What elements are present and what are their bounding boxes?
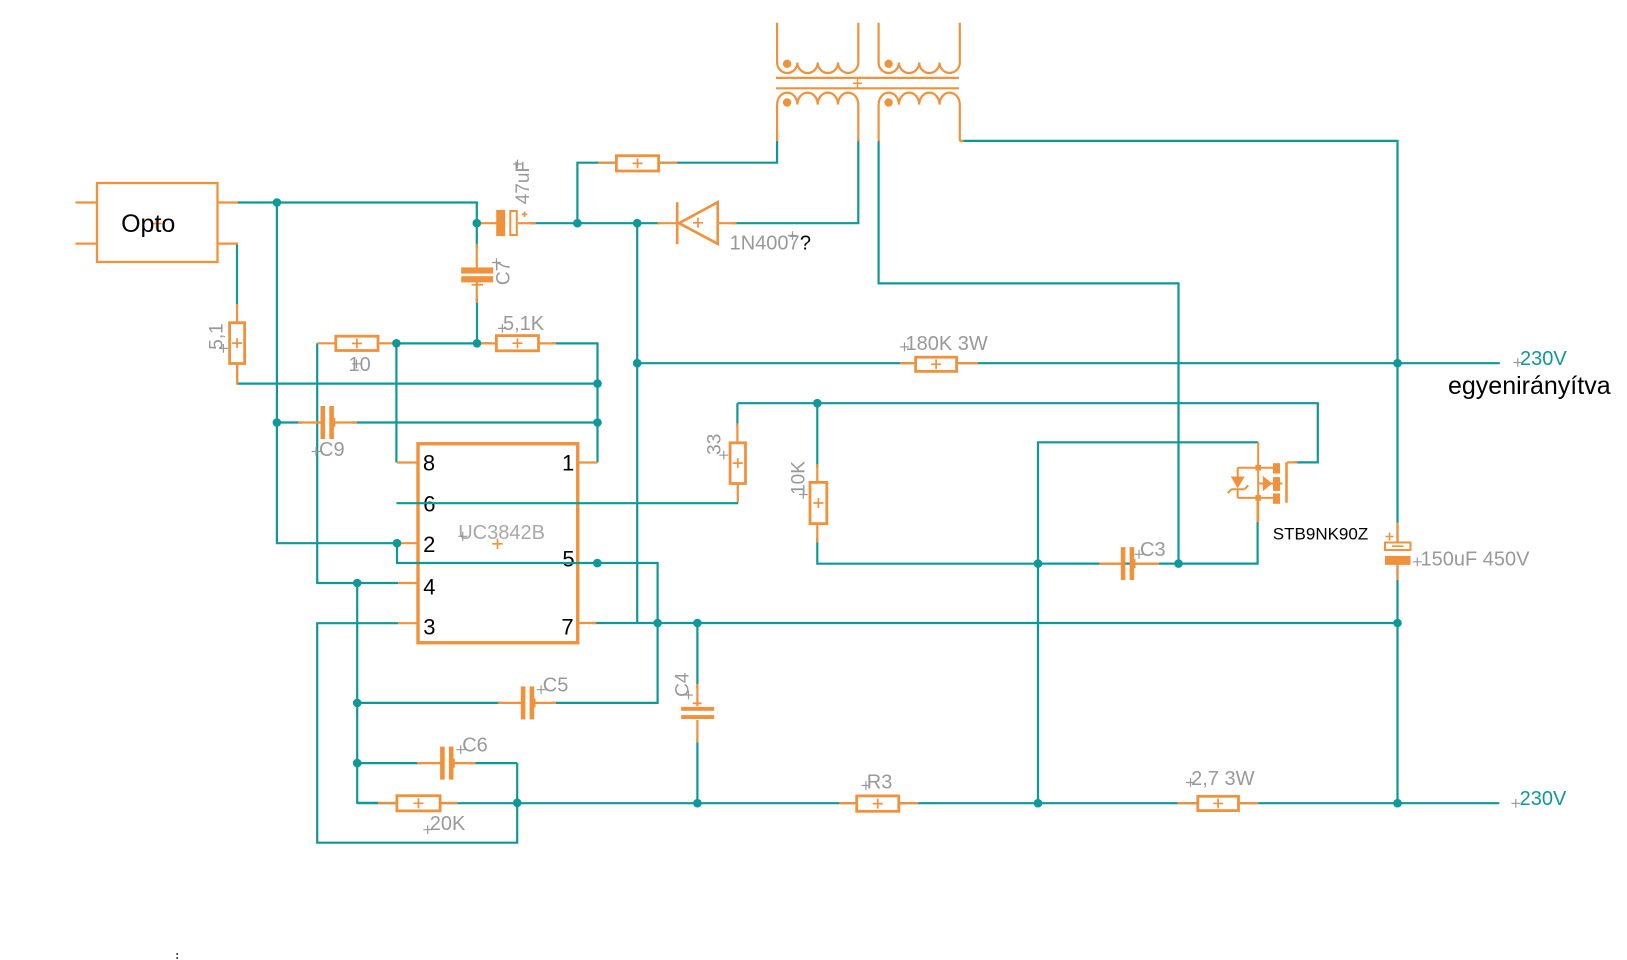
wire: right transformer left lead down and to C3-right vertical	[879, 140, 1179, 564]
wire: diode right to left transformer right lead	[732, 138, 858, 223]
label anchor 47uF	[513, 160, 522, 169]
wire: 47uF right to diode-left node	[530, 222, 660, 224]
label anchor 150uF	[1413, 557, 1422, 566]
wire: 10K bottom lead	[816, 524, 818, 543]
wire: 150uF top lead	[1396, 523, 1398, 546]
capacitor 150uF 450V	[1385, 533, 1411, 565]
svg-text:180K 3W: 180K 3W	[906, 333, 988, 355]
wire: pin4 node down through C5 C6 to 20K	[357, 583, 378, 803]
node: C3 right junction	[1174, 559, 1183, 568]
wire: 150uF bottom lead	[1396, 560, 1398, 580]
wire: 5.1K right to pin1 vertical	[552, 343, 598, 462]
wire: 150uF bottom to pin7-line dot to bottom rail	[1396, 560, 1398, 803]
wire: C6 right lead	[453, 762, 476, 764]
label anchor UC3842B	[458, 532, 467, 541]
node: 180K left junction	[633, 359, 642, 368]
label anchor 20K	[423, 825, 432, 834]
wire: opto right lead 2	[218, 243, 239, 245]
node: pin4 junction	[353, 579, 362, 588]
transformer core lines	[776, 78, 959, 88]
wire: 5.1K left lead	[479, 342, 496, 344]
wire: diode left lead	[657, 222, 676, 224]
label anchor 1N4007	[788, 231, 797, 240]
label anchor 5,1	[219, 344, 228, 353]
svg-text:33: 33	[704, 434, 725, 455]
wire: 180K line from node to 230V	[637, 362, 1500, 364]
svg-text:Opto: Opto	[121, 210, 175, 238]
wire: opto bottom lead down to 5.1 resistor	[236, 244, 238, 308]
wire: C4 top lead	[696, 684, 698, 707]
node: pin5 junction	[593, 559, 602, 568]
wire: C3 right lead	[1134, 562, 1159, 564]
wire: pin3 loop	[317, 623, 517, 843]
diode 1N4007	[677, 202, 718, 244]
transistor Q1 STB9NK90Z	[1228, 442, 1287, 522]
capacitor C3	[1121, 547, 1138, 580]
wire: 180K right lead	[957, 362, 978, 364]
resistor R3 body	[857, 796, 899, 811]
wire: opto left lead 1	[76, 201, 98, 203]
label anchor C3	[1135, 550, 1144, 559]
node: C6 left junction	[353, 759, 362, 768]
svg-text:10: 10	[349, 354, 371, 376]
svg-text:47uF: 47uF	[513, 161, 534, 204]
wire: 5.1-bottom feedback line	[237, 383, 597, 385]
svg-text:230V: 230V	[1520, 348, 1567, 370]
svg-text:C4: C4	[672, 672, 693, 697]
wire: 5.1 bottom lead riser	[236, 364, 238, 384]
wire: C3 left lead	[1099, 562, 1121, 564]
resistor 20K body	[397, 796, 440, 811]
node: C9 left junction	[273, 418, 282, 427]
wire: C9 line left	[277, 421, 302, 423]
wire: 2.7 left lead	[1177, 802, 1197, 804]
wire: pin8 vertical from res10 node	[395, 343, 397, 462]
wire: C7 bottom lead	[476, 282, 478, 303]
node: C7 / 5.1K left	[473, 339, 482, 348]
wire: C5 left lead	[498, 702, 522, 704]
wire: 5.1 bottom lead	[236, 364, 238, 385]
svg-text:1: 1	[562, 451, 574, 476]
label anchor 180K	[900, 343, 909, 352]
wire: pin3 lead	[398, 622, 419, 624]
wire: opto node down-left rail to pin2	[277, 203, 397, 544]
node: diode anode junction	[633, 219, 642, 228]
wire: C4 bottom lead	[696, 720, 698, 743]
capacitor C7	[461, 267, 493, 284]
node: C4 top junction	[693, 619, 702, 628]
node: 47uF right	[573, 219, 582, 228]
label anchor 5,1K	[498, 324, 507, 333]
svg-text:7: 7	[561, 615, 573, 640]
wire: C5 right lead	[534, 702, 557, 704]
wire: C6 left lead	[417, 762, 441, 764]
wire: R3 right lead	[899, 802, 918, 804]
transformer T1	[777, 23, 858, 142]
wire: pin4 lead	[398, 582, 419, 584]
svg-text:5,1: 5,1	[207, 323, 228, 349]
wire: pin7 line to 150uF-bottom node	[592, 622, 1398, 624]
wire: C6 line right	[470, 762, 517, 764]
label anchor C7	[492, 258, 501, 267]
wire: C7 bottom to 5.1K-left junction	[476, 298, 478, 343]
node: right vertical rail junction	[1393, 799, 1402, 808]
wire: 10K bottom to drain node	[817, 538, 1038, 564]
op-amp U1 origin cross	[492, 539, 502, 549]
node: pin5/pin7 junction	[653, 619, 662, 628]
wire: 10K top lead	[816, 464, 818, 482]
opto-coupler Opto box	[97, 183, 218, 262]
resistor 5,1K body	[496, 336, 538, 351]
capacitor C4	[681, 703, 714, 719]
wire: snubber res left lead	[598, 162, 616, 164]
svg-text:C5: C5	[543, 675, 569, 697]
svg-text:150uF 450V: 150uF 450V	[1421, 548, 1531, 570]
wire: 47uF left lead	[480, 222, 496, 224]
wire: pin2 to pin5 line to pin7 node	[397, 543, 658, 623]
resistor 10 body	[336, 336, 378, 350]
node: pin2 junction	[393, 539, 402, 548]
wire: snubber res right lead	[659, 162, 678, 164]
wire: res10 left lead	[317, 342, 336, 344]
node: drain/C3 left junction	[1034, 559, 1043, 568]
node: res10 right / pin8	[392, 339, 401, 348]
wire: 2.7 right lead	[1239, 802, 1259, 804]
wire: C4 branch top	[696, 623, 698, 688]
node: gate node 33/10K	[813, 399, 822, 408]
wire: C5 line right to pin7 node	[552, 623, 658, 703]
svg-text:10K: 10K	[789, 461, 810, 495]
op-amp U1 UC3842B box	[418, 444, 578, 643]
wire: 20K right lead	[440, 802, 458, 804]
capacitor 47uF	[496, 210, 527, 236]
label anchor 230V bottom	[1511, 799, 1520, 808]
wire: opto left lead 2	[76, 243, 98, 245]
svg-text:20K: 20K	[430, 813, 466, 835]
node: opto output junction	[273, 198, 282, 207]
wire: diode-left node down to 180K node and pin7 line	[636, 223, 638, 623]
node: 150uF bottom junction	[1393, 619, 1402, 628]
label anchor 10	[352, 359, 361, 368]
wire: opto output top to 47uF-left corner	[237, 203, 477, 224]
wire: 5.1 top lead	[236, 304, 238, 323]
wire: 5.1K right lead	[539, 342, 557, 344]
svg-text:C3: C3	[1140, 539, 1166, 561]
wire: res10 right to 5.1K left	[393, 342, 490, 344]
wire: mosfet source lead	[1256, 498, 1258, 522]
wire: pin7 lead	[577, 622, 596, 624]
transformer T2	[879, 23, 964, 142]
resistor 33 body	[730, 443, 745, 484]
wire: mosfet top line and vertical through drain node to rail	[1038, 442, 1258, 803]
svg-text:5: 5	[562, 546, 574, 571]
capacitor C5	[521, 686, 538, 719]
svg-text:C6: C6	[462, 735, 488, 757]
label anchor C9	[312, 447, 321, 456]
wire: opto right lead 1	[218, 201, 239, 203]
wire: 33 top lead riser	[736, 403, 738, 427]
svg-text:R3: R3	[867, 772, 893, 794]
capacitor C9	[321, 406, 338, 439]
resistor 2,7 3W body	[1198, 796, 1239, 810]
wire: gate drive line from 33/10K node to gate	[737, 403, 1317, 462]
wire: pin2 lead	[397, 542, 419, 544]
wire: pin1 lead	[577, 461, 598, 463]
wire: 33 bottom lead	[737, 484, 739, 503]
resistor 10K body	[810, 482, 827, 523]
wire: 180K left lead	[900, 362, 916, 364]
wire: 10K top lead riser	[816, 403, 818, 468]
label anchor 10K	[799, 490, 808, 499]
resistor snubber body	[616, 156, 658, 171]
capacitor C6	[440, 747, 457, 780]
svg-text:egyenirányítva: egyenirányítva	[1448, 372, 1611, 400]
opto-coupler origin cross	[151, 218, 161, 228]
wire: 47uF right lead	[518, 222, 536, 224]
wire: C6 line left	[357, 762, 422, 764]
wire: pin6 line to 33 bottom	[396, 502, 738, 504]
wire: res10 right lead	[378, 342, 394, 344]
wire: pin4 net from res10 corner down	[317, 343, 398, 583]
wire: C7 top lead	[476, 244, 478, 268]
svg-text:STB9NK90Z: STB9NK90Z	[1273, 525, 1368, 544]
wire: drain node to C3 to source corner	[1038, 518, 1258, 564]
label anchor C6	[456, 745, 465, 754]
svg-text:5,1K: 5,1K	[503, 313, 545, 335]
wire: R3 left lead	[839, 802, 857, 804]
svg-text:8: 8	[423, 451, 435, 476]
label anchor C5	[537, 685, 546, 694]
resistor 5,1 body	[230, 323, 245, 364]
svg-text:3: 3	[423, 615, 435, 640]
wire: C5 line left	[357, 702, 502, 704]
wire: C4 branch bottom	[696, 738, 698, 803]
wire: C9 line right	[352, 421, 598, 423]
wire: C9 left lead	[298, 421, 321, 423]
label anchor C4	[684, 691, 693, 700]
wire: 20K left lead	[378, 802, 397, 804]
svg-text:2: 2	[423, 532, 435, 557]
node: C5 left junction	[353, 699, 362, 708]
wire: right vertical down to 150uF top	[1396, 363, 1398, 546]
label anchor R3	[862, 781, 871, 790]
node: feedback line / pin1 vertical	[593, 379, 602, 388]
svg-text:2,7 3W: 2,7 3W	[1191, 768, 1254, 790]
wire: 47uF left junction down to C7	[476, 223, 478, 248]
node: 47uF left	[473, 219, 482, 228]
node: drain vertical rail junction	[1034, 799, 1043, 808]
stray mark bottom left	[176, 953, 178, 960]
label anchor 230V top	[1513, 358, 1522, 367]
wire: pin8 lead	[397, 461, 419, 463]
transformer origin cross	[853, 79, 862, 88]
wire: bottom rail 230V	[357, 802, 1499, 804]
wire: mosfet gate lead	[1287, 461, 1297, 463]
node: C9 right junction	[593, 418, 602, 427]
svg-text:230V: 230V	[1520, 788, 1567, 810]
wire: C9 right lead	[334, 421, 357, 423]
node: 20K right junction	[513, 799, 522, 808]
svg-text:4: 4	[423, 575, 435, 600]
wire: node up over snubber resistor to left transformer left lead	[577, 138, 777, 223]
resistor 180K 3W body	[916, 357, 957, 371]
wire: 33 top lead	[736, 423, 738, 443]
svg-text:UC3842B: UC3842B	[458, 522, 545, 544]
label anchor 2,7	[1186, 778, 1195, 787]
node: 230V top junction	[1393, 359, 1402, 368]
wire: diode right lead	[718, 222, 737, 224]
label anchor 33	[719, 451, 728, 460]
svg-text:C9: C9	[319, 439, 345, 461]
svg-text:?: ?	[800, 233, 811, 255]
node: C4 bottom rail junction	[693, 799, 702, 808]
wire: right transformer right lead to right vertical	[960, 141, 1398, 363]
